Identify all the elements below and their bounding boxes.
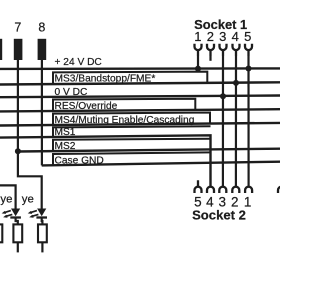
wire socket1 pin2 stub [209,56,211,61]
svg-text:0 V DC: 0 V DC [55,87,88,98]
svg-text:+ 24 V DC: + 24 V DC [55,57,102,68]
label box RES/Override [53,99,195,111]
wire socket1 pin4 to socket2 pin2 [235,56,237,187]
svg-text:MS4/Muting Enable/Cascading: MS4/Muting Enable/Cascading [55,115,195,126]
wire LED1 feed from left edge [0,185,16,208]
socket2 pin labels 5-1 [194,194,251,209]
svg-text:7: 7 [14,20,21,34]
terminal 8 [38,39,47,60]
junction pin5 +24VDC [246,66,252,72]
svg-text:MS2: MS2 [55,141,76,152]
wire MS3 bus L2 [0,82,280,84]
label box MS2 [53,139,211,152]
svg-text:ye: ye [22,194,34,206]
svg-text:4: 4 [232,29,239,44]
svg-text:MS3/Bandstopp/FME*: MS3/Bandstopp/FME* [55,74,156,85]
label box MS1 [53,126,211,137]
wire socket1 pin1 to +24VDC [197,56,199,69]
resistor R1 [13,224,22,242]
LED D2 yellow [28,209,47,218]
label box Case GND [53,152,211,165]
svg-text:Case GND: Case GND [55,155,104,166]
LED D1 yellow [2,209,21,218]
partial pin of next socket at right edge [278,187,285,193]
wire R1 stub [17,242,19,252]
junction pin3 0VDC [220,93,226,99]
label box MS3 [53,72,207,84]
label box MS4 [53,113,210,126]
wire MS1 bus L6 corner to socket2 pin4 [0,135,211,187]
socket1 pin contacts [195,44,253,56]
wire MS4 bus L5 [0,123,280,126]
svg-text:ye: ye [0,194,12,206]
wire LED1 to R1 [16,218,18,225]
wire 0VDC bus L3 [0,96,280,98]
socket2 pin contacts [195,180,286,193]
wire MS2 bus L7 [18,149,280,152]
svg-text:2: 2 [207,29,214,44]
junction pin1 +24VDC [195,66,201,72]
wire Case GND bus L8 [42,162,280,166]
junction terminal7 to MS2 [15,148,21,154]
svg-text:MS1: MS1 [55,127,76,138]
wire R2 stub [41,242,43,252]
resistor R2 [38,224,47,242]
socket1 pin labels 1-5 [194,29,251,44]
resistor R0 partial at left edge [0,224,2,242]
svg-text:Socket 2: Socket 2 [192,207,246,222]
svg-text:RES/Override: RES/Override [55,101,118,112]
wire terminal8 down to Case GND [41,60,43,165]
wire RES bus L4 [0,109,280,111]
terminal 7 [14,39,23,60]
svg-text:1: 1 [194,29,201,44]
terminal 6 (partial at left edge) [0,39,2,60]
svg-text:5: 5 [244,29,251,44]
wire LED2 to R2 [41,218,44,225]
wire +24VDC bus L1 [0,67,280,70]
wire socket1 pin5 to socket2 pin1 [247,56,249,187]
wire terminal7 down to LED2 branch [18,60,42,209]
junction pin4 MS3 [233,80,239,86]
svg-text:8: 8 [38,20,45,34]
wire socket1 pin3 to socket2 pin3 [222,56,224,187]
svg-text:3: 3 [219,29,226,44]
